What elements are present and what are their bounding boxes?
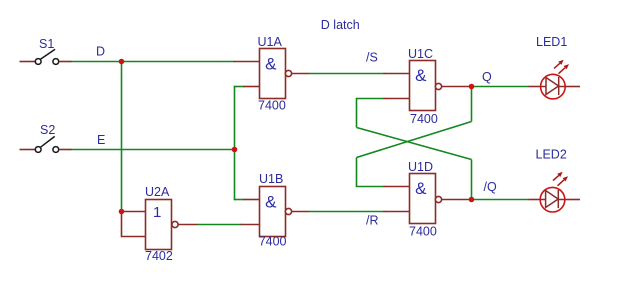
junction U2A input node <box>119 209 125 215</box>
wire E to U1B input A corner <box>234 199 245 201</box>
svg-text:U2A: U2A <box>145 185 170 199</box>
NAND gate U1A <box>234 49 309 99</box>
switch S1 <box>20 49 72 64</box>
svg-text:S2: S2 <box>40 123 55 137</box>
wire E to U1A input B corner <box>234 86 245 88</box>
wire /R (U1B output to U1D input B) <box>309 211 385 213</box>
wire cross-couple vertical into node /Q <box>471 160 473 200</box>
svg-text:/Q: /Q <box>484 180 497 194</box>
svg-text:Q: Q <box>482 70 492 84</box>
wire E horizontal (S2 to node E) <box>71 149 235 151</box>
wire /Q to LED2 <box>472 199 529 201</box>
wire cross-couple vertical to U1D input A <box>357 158 385 187</box>
svg-text:7402: 7402 <box>145 249 173 263</box>
switch S2 <box>20 136 72 152</box>
svg-text:U1C: U1C <box>408 47 433 61</box>
svg-text:1: 1 <box>153 204 161 221</box>
svg-text:/R: /R <box>366 214 379 228</box>
svg-text:/S: /S <box>366 51 378 65</box>
wire D horizontal (S1 to U1A input A) <box>71 61 235 63</box>
svg-text:7400: 7400 <box>259 235 287 249</box>
svg-text:&: & <box>265 54 277 73</box>
svg-text:&: & <box>415 66 427 85</box>
wire cross-couple: node Q vertical drop <box>471 87 473 122</box>
NAND gate U1B <box>241 187 309 237</box>
svg-text:&: & <box>415 179 427 198</box>
svg-text:U1B: U1B <box>259 172 283 186</box>
wire E vertical (up to U1A input B, down to U1B input A) <box>234 86 236 200</box>
NAND gate U1C <box>384 61 472 111</box>
wire /S (U1A output to U1C input A) <box>309 73 385 75</box>
svg-text:U1A: U1A <box>258 35 283 49</box>
svg-text:D latch: D latch <box>321 18 360 32</box>
LED2 <box>529 172 581 212</box>
svg-text:LED2: LED2 <box>536 148 567 162</box>
svg-text:LED1: LED1 <box>536 35 567 49</box>
junction node Q <box>469 84 475 90</box>
wire Q to LED1 <box>472 86 529 88</box>
wire U2A output to U1B input B <box>198 224 242 226</box>
wire cross-couple diagonal down-right to /Q <box>357 128 472 160</box>
svg-text:7400: 7400 <box>409 225 437 239</box>
LED1 <box>529 60 581 99</box>
svg-text:7400: 7400 <box>410 112 438 126</box>
svg-text:S1: S1 <box>39 37 54 51</box>
svg-text:7400: 7400 <box>258 99 286 113</box>
junction node D <box>119 59 125 65</box>
svg-text:D: D <box>96 45 105 59</box>
wire cross-couple: U1C input B left drop <box>357 99 385 128</box>
svg-text:E: E <box>97 133 105 147</box>
svg-text:U1D: U1D <box>408 160 433 174</box>
svg-text:&: & <box>265 192 277 211</box>
wire D vertical (node D down to U2A inputs) <box>121 62 123 212</box>
junction node E <box>232 147 238 153</box>
NOR gate U2A (7402 wired as inverter) <box>122 200 198 250</box>
wire cross-couple diagonal down-left from Q <box>357 122 472 158</box>
junction node /Q <box>469 197 475 203</box>
NAND gate U1D <box>384 174 472 224</box>
